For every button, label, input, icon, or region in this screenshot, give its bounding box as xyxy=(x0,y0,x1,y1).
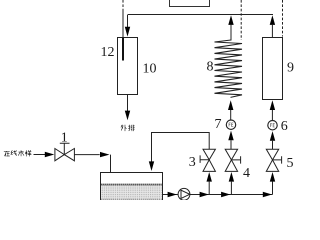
arrowhead up into FE 6 xyxy=(270,131,275,141)
svg-text:4: 4 xyxy=(243,166,250,181)
wire: drop into tank xyxy=(110,155,112,173)
arrowhead pump to branch 3 xyxy=(200,192,209,197)
vessel 9 xyxy=(263,38,283,100)
排 xyxy=(128,125,134,131)
tank liquid stipple xyxy=(101,185,162,200)
svg-text:9: 9 xyxy=(287,61,294,76)
wire: riser valve 3 to return line and into tank xyxy=(152,133,210,162)
flow element FE 7 xyxy=(226,120,235,129)
wire: vessel 9 top riser xyxy=(271,25,273,37)
wire: riser from coil 8 top to header xyxy=(230,25,232,41)
svg-text:7: 7 xyxy=(215,117,222,132)
wire: dashed signal to probe 12 xyxy=(122,0,124,10)
coil condenser 8 xyxy=(215,40,243,97)
wire: FE7 to valve 4 xyxy=(230,140,232,149)
wire: FE6 to valve 5 xyxy=(272,141,274,150)
arrowhead outlet (外排) xyxy=(125,111,130,121)
flow element FE 6 xyxy=(268,121,277,130)
wire: manifold to valve 3 xyxy=(208,182,210,195)
在 xyxy=(4,151,10,156)
valve 4 stem xyxy=(231,156,240,163)
valve 3 stem (left) xyxy=(200,155,209,163)
水 xyxy=(18,150,24,156)
arrowhead up into valve 4 xyxy=(229,172,234,182)
valve 3 xyxy=(203,149,215,160)
样 xyxy=(25,150,31,156)
arrowhead at tank inlet corner xyxy=(100,152,110,157)
wire: valve 1 to tank xyxy=(74,154,99,156)
wire: probe cable solid xyxy=(122,10,124,38)
valve 4 xyxy=(225,149,237,160)
arrowhead up into valve 3 xyxy=(207,172,212,182)
arrowhead down into tank (return) xyxy=(149,161,154,171)
wire: dashed signal line (right of coil) xyxy=(240,0,242,40)
inlet pipe from sample xyxy=(34,154,46,156)
arrowhead branch3 to branch 4 xyxy=(221,192,230,197)
arrowhead up into coil 8 bottom xyxy=(228,100,233,110)
arrowhead up into header (from coil) xyxy=(228,15,233,25)
pump P1 xyxy=(178,188,190,200)
svg-text:6: 6 xyxy=(281,119,288,134)
arrowhead up into FE 7 xyxy=(228,131,233,141)
svg-text:5: 5 xyxy=(287,156,294,171)
vessel V10 xyxy=(118,38,138,95)
tank liquid surface xyxy=(101,184,162,186)
valve 1 stem xyxy=(60,143,70,154)
tank (sample reservoir) xyxy=(101,173,163,202)
wire: down pipe into vessel 10 xyxy=(127,15,129,28)
valve 5 stem xyxy=(273,156,282,163)
arrowhead up into valve 5 xyxy=(270,172,275,182)
svg-text:12: 12 xyxy=(101,45,115,60)
valve 1 xyxy=(55,149,64,161)
arrowhead up into vessel 9 bottom xyxy=(270,100,275,110)
svg-text:3: 3 xyxy=(189,155,196,170)
label 外排 (hand-drawn glyphs) xyxy=(121,125,135,131)
wire: vessel9 bottom to FE 6 xyxy=(271,110,273,121)
wire: manifold xyxy=(163,182,273,195)
外 xyxy=(121,125,127,131)
wire: manifold corner to valve 5 xyxy=(272,182,274,195)
label 在线水样 (hand-drawn glyphs) xyxy=(4,150,32,156)
valve 5 xyxy=(266,149,278,160)
svg-text:1: 1 xyxy=(61,131,68,146)
probe 12 (bar inside vessel) xyxy=(122,38,124,61)
arrowhead down into vessel 10 xyxy=(125,27,130,37)
arrowhead tank to pump xyxy=(168,192,177,197)
wire: main top header line xyxy=(128,14,274,16)
arrowhead into valve 1 xyxy=(45,152,55,157)
wire: coil bottom to flow element 7 xyxy=(230,110,232,120)
wire: manifold to valve 4 xyxy=(230,182,232,195)
controller box (top, cut off) xyxy=(170,0,210,7)
arrowhead up into header (from vessel 9) xyxy=(270,15,275,25)
wire: vessel 10 outlet down xyxy=(127,95,129,111)
svg-text:8: 8 xyxy=(207,60,214,75)
线 xyxy=(11,150,17,155)
arrowhead to valve 5 corner xyxy=(263,192,272,197)
wire: dashed signal line (right, above vessel 9) xyxy=(282,0,284,37)
svg-text:10: 10 xyxy=(143,62,157,77)
